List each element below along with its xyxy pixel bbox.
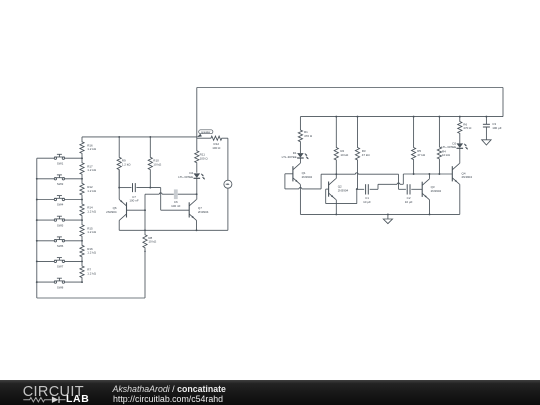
svg-text:100 Ω: 100 Ω xyxy=(212,146,221,150)
svg-text:100 nF: 100 nF xyxy=(129,199,139,203)
svg-text:100 µF: 100 µF xyxy=(492,126,502,130)
svg-text:47 kΩ: 47 kΩ xyxy=(417,153,426,157)
svg-text:1.2 kΩ: 1.2 kΩ xyxy=(122,163,132,167)
svg-text:SW4: SW4 xyxy=(57,203,64,207)
svg-text:1.2 kΩ: 1.2 kΩ xyxy=(87,271,97,275)
svg-text:SW5: SW5 xyxy=(57,223,64,227)
svg-text:SW8: SW8 xyxy=(57,285,64,289)
svg-text:1.2 kΩ: 1.2 kΩ xyxy=(87,209,97,213)
svg-text:LTL-307EE: LTL-307EE xyxy=(441,145,456,149)
svg-text:1.2 kΩ: 1.2 kΩ xyxy=(87,147,97,151)
svg-text:2N3904: 2N3904 xyxy=(198,210,209,214)
svg-text:SW2: SW2 xyxy=(57,182,64,186)
svg-text:SW1: SW1 xyxy=(57,161,64,165)
svg-text:SW7: SW7 xyxy=(57,265,64,269)
svg-text:1.2 kΩ: 1.2 kΩ xyxy=(87,189,97,193)
svg-text:1.2 kΩ: 1.2 kΩ xyxy=(87,168,97,172)
svg-text:2N3904: 2N3904 xyxy=(338,188,349,192)
svg-text:10 µF: 10 µF xyxy=(405,200,413,204)
svg-text:2N3904: 2N3904 xyxy=(431,189,442,193)
svg-text:100 Ω: 100 Ω xyxy=(200,156,209,160)
svg-text:470 Ω: 470 Ω xyxy=(463,126,472,130)
svg-text:LTL-307EE: LTL-307EE xyxy=(282,155,297,159)
svg-text:10 µF: 10 µF xyxy=(363,200,371,204)
svg-text:10 kΩ: 10 kΩ xyxy=(148,240,157,244)
svg-text:10 kΩ: 10 kΩ xyxy=(153,163,162,167)
svg-text:1.2 kΩ: 1.2 kΩ xyxy=(87,230,97,234)
svg-text:speaker: speaker xyxy=(201,130,210,134)
svg-text:470 Ω: 470 Ω xyxy=(304,134,313,138)
svg-text:10 kΩ: 10 kΩ xyxy=(442,153,451,157)
svg-text:SW6: SW6 xyxy=(57,244,64,248)
svg-text:1.2 kΩ: 1.2 kΩ xyxy=(87,251,97,255)
svg-text:LTL-307EE: LTL-307EE xyxy=(178,175,193,179)
svg-text:2N3904: 2N3904 xyxy=(462,175,473,179)
svg-text:2N3904: 2N3904 xyxy=(302,175,313,179)
svg-text:47 kΩ: 47 kΩ xyxy=(362,153,371,157)
svg-text:2N3904: 2N3904 xyxy=(106,210,117,214)
svg-text:100 nF: 100 nF xyxy=(171,204,181,208)
svg-text:10 kΩ: 10 kΩ xyxy=(340,153,349,157)
